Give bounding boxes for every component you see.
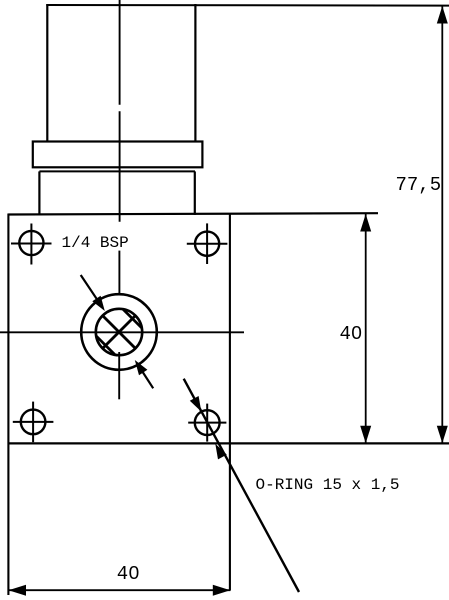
- dimension text 40 (bottom): [117, 563, 140, 585]
- mounting hole bottom-right: [188, 404, 226, 442]
- port circle outer: [81, 294, 157, 370]
- valve body left edge + extension line down to bottom dimension: [7, 214, 9, 596]
- leader arrow into port circle lower-right: [135, 360, 153, 388]
- horizontal centerline: [0, 331, 244, 333]
- svg-text:O-RING 15 x 1,5: O-RING 15 x 1,5: [256, 476, 400, 494]
- valve body top edge + extension line for 40 dimension: [8, 213, 378, 214]
- port circle inner: [96, 309, 142, 355]
- solenoid coil left edge: [46, 4, 48, 142]
- valve body right edge + extension line down to bottom dimension: [229, 214, 231, 591]
- label O-RING 15 x 1,5: [256, 476, 400, 494]
- dimension text 40 (right): [340, 323, 363, 345]
- neck top edge line under flange: [39, 170, 195, 172]
- coil flange rectangle: [33, 142, 203, 168]
- svg-text:40: 40: [117, 563, 140, 585]
- dimension line 77,5 (vertical, right): [437, 6, 448, 443]
- leader arrow into port circle upper-left: [81, 275, 105, 311]
- solenoid coil right edge: [194, 4, 196, 142]
- vertical centerline (with gaps): [118, 0, 120, 399]
- svg-text:77,5: 77,5: [396, 174, 442, 196]
- mounting hole bottom-left: [13, 402, 54, 443]
- dimension line 40 (vertical, right of body): [360, 214, 371, 443]
- svg-text:1/4 BSP: 1/4 BSP: [62, 234, 129, 252]
- dimension line 40 (horizontal, bottom): [9, 585, 231, 596]
- valve body bottom edge + extension line to right dimensions: [8, 442, 449, 444]
- mounting hole top-right: [187, 223, 228, 264]
- neck right edge: [194, 171, 196, 215]
- leader arrow pointing up-left at bottom-right hole from below: [215, 444, 227, 460]
- neck left edge: [38, 171, 40, 215]
- label 1/4 BSP: [62, 234, 129, 252]
- mounting hole top-left: [11, 224, 52, 265]
- O-ring leader line through bottom-right hole: [184, 379, 299, 592]
- wire: top edge of coil + extension line to 77,5 dimension: [46, 4, 449, 7]
- port hatch pattern inside inner circle: [76, 289, 163, 376]
- dimension text 77,5: [396, 174, 442, 196]
- leader arrow into bottom-right hole from upper-left: [190, 396, 202, 412]
